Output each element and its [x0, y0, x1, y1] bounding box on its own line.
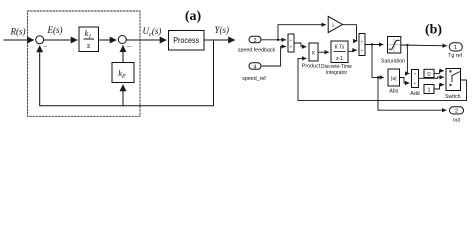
svg-text:K Ts: K Ts — [335, 45, 345, 51]
wire Process output — [204, 39, 235, 41]
svg-text:+: + — [414, 72, 417, 77]
wire branch down to abs — [372, 45, 384, 78]
svg-text:Uc(s): Uc(s) — [143, 26, 162, 38]
product block X — [302, 43, 321, 70]
wire branch down to out line — [378, 77, 446, 110]
add2 block (narrow) — [410, 70, 419, 98]
svg-text:Add: Add — [410, 91, 419, 97]
svg-text:+: + — [361, 48, 364, 53]
svg-text:out: out — [453, 118, 461, 124]
wire branch down to add2 — [407, 45, 409, 73]
wire S2 to Process — [126, 39, 166, 41]
abs block — [388, 69, 400, 95]
constant block 1 — [424, 85, 434, 94]
constant block 0 — [424, 69, 434, 78]
svg-text:+: + — [290, 45, 293, 50]
junction dot add1 out — [371, 43, 373, 45]
wire R(s) input — [4, 39, 34, 41]
wire branch up to gain — [278, 25, 326, 40]
svg-text:3: 3 — [253, 38, 256, 44]
svg-text:−: − — [127, 43, 132, 52]
wire feedback loop — [40, 40, 214, 106]
switch block — [445, 69, 461, 101]
discrete-time integrator block — [321, 41, 352, 76]
port 1 Tg ref — [448, 43, 462, 59]
svg-text:|u|: |u| — [391, 76, 397, 82]
block Process — [169, 31, 205, 51]
svg-text:speed feedback: speed feedback — [238, 48, 276, 54]
wire port4 to sum — [261, 47, 286, 67]
svg-text:Saturation: Saturation — [381, 59, 405, 65]
wire integrator to S2 — [99, 39, 117, 41]
summing junction S2 — [118, 36, 126, 44]
wire sum to product — [294, 43, 306, 47]
svg-text:R(s): R(s) — [10, 27, 26, 37]
gain triangle — [328, 16, 342, 32]
port 3 speed feedback — [238, 36, 276, 53]
wire abs to add2 — [400, 78, 410, 84]
port 4 speed_ref — [242, 63, 266, 82]
svg-text:Switch: Switch — [445, 94, 461, 100]
svg-text:Product: Product — [302, 64, 321, 70]
svg-text:z-1: z-1 — [336, 56, 343, 62]
svg-text:+: + — [290, 38, 293, 43]
svg-text:4: 4 — [253, 64, 256, 70]
wire add1 to saturation — [365, 44, 383, 46]
svg-text:1: 1 — [454, 45, 457, 51]
svg-text:E(s): E(s) — [47, 25, 63, 35]
wire feedback branch to kp — [122, 85, 124, 106]
junction dot saturation out — [406, 44, 408, 46]
dashed controller boundary box (a) — [28, 11, 141, 116]
port 2 out — [450, 107, 464, 124]
svg-text:0: 0 — [427, 72, 430, 78]
integrator block k1/s — [79, 27, 99, 52]
junction dot gain branch — [277, 39, 279, 41]
wire port3 to sum — [261, 39, 286, 41]
svg-text:Process: Process — [173, 35, 199, 45]
wire integrator to add1 — [348, 50, 357, 51]
wire const0 to switch — [434, 71, 444, 74]
junction dot abs wire — [377, 76, 379, 78]
svg-text:−: − — [43, 43, 48, 52]
sum block (narrow add) — [288, 34, 294, 52]
svg-text:+: + — [414, 81, 417, 86]
saturation block — [381, 37, 405, 65]
svg-text:(a): (a) — [185, 9, 202, 24]
svg-text:Integrator: Integrator — [326, 70, 348, 76]
wire const1 to switch — [434, 85, 444, 89]
svg-text:Tg ref: Tg ref — [448, 53, 462, 59]
svg-text:Discrete-Time: Discrete-Time — [321, 64, 352, 70]
summing junction S1 — [36, 36, 44, 44]
svg-text:2: 2 — [455, 109, 458, 115]
add1 block (narrow) — [359, 34, 365, 56]
wire S1 to integrator — [44, 39, 77, 41]
wire product to discrete integrator — [319, 51, 329, 53]
svg-text:Abs: Abs — [389, 89, 398, 95]
svg-text:Y(s): Y(s) — [215, 25, 230, 35]
wire saturation to Tg ref — [401, 44, 447, 47]
wire gain to add1 — [343, 25, 358, 41]
svg-text:(b): (b) — [425, 23, 442, 38]
wire kp to S2 — [122, 46, 124, 63]
wire switch out feedback — [298, 58, 467, 100]
wire add2 to switch — [419, 77, 444, 78]
svg-text:+: + — [361, 39, 364, 44]
block kp — [112, 63, 134, 83]
svg-text:speed_ref: speed_ref — [242, 76, 266, 82]
svg-text:1: 1 — [427, 88, 430, 94]
